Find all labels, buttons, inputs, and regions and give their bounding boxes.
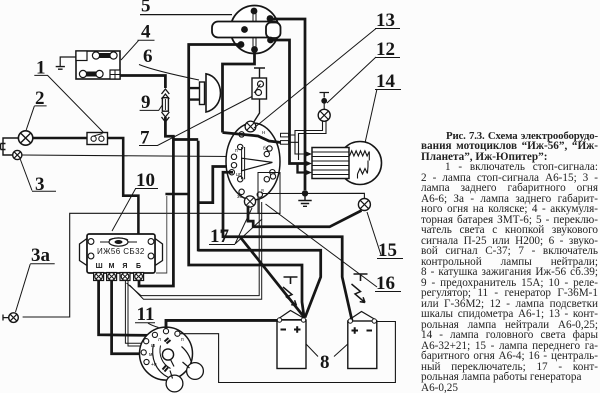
leader/underline for label 2 — [26, 106, 46, 130]
svg-text:14: 14 — [376, 71, 396, 92]
coil T8a top peak — [280, 311, 304, 319]
leader/underline for label 10 — [112, 189, 158, 232]
wire: spade terminals to HL12 net — [289, 135, 299, 142]
svg-text:Я: Я — [122, 263, 127, 270]
switch S5 axis (double line) — [253, 10, 256, 50]
switch 16 housing box (thin) — [258, 173, 280, 214]
battery GB terminal block — [110, 70, 120, 79]
wire: S5 right dot to vertical bus x=305.7 — [270, 19, 305, 190]
leader/underline for label 9 — [140, 105, 163, 110]
switch SA1 (item 1, stop-signal switch) body — [87, 133, 108, 145]
lamp HL3a (sidecar tail lamp) — [9, 313, 19, 323]
svg-text:п: п — [235, 148, 238, 154]
generator rotor inner circle — [162, 349, 173, 360]
svg-text:17: 17 — [210, 226, 230, 247]
svg-text:10: 10 — [136, 170, 155, 191]
relay enclosure thin right side — [156, 196, 167, 273]
switch S5 contact dot right — [267, 37, 274, 44]
switch SA7 contact circles — [258, 81, 264, 87]
leader/underline for label 1 — [34, 75, 105, 134]
generator lower-right brush circle — [187, 363, 204, 380]
svg-text:11: 11 — [137, 304, 155, 325]
coil T8a polarity — [281, 329, 287, 331]
switch S5 contact dot top-right — [267, 15, 274, 22]
fuse FU bottom arrows — [162, 112, 170, 122]
front position lamp HL15 — [358, 199, 370, 211]
wire: branch from belt to left coil + — [240, 237, 305, 318]
relay terminal bolts — [94, 273, 144, 281]
wire: lamp HL2 to brake switch SA1 (thick) — [33, 137, 87, 140]
battery GB top cell bar — [96, 53, 113, 58]
extra terminal on right of SA16 — [270, 174, 275, 179]
wire: S5 bottom dot down-left to central switch — [223, 50, 255, 133]
wire: SA7 down to neutral lamp in central switch — [253, 99, 260, 124]
headlight low filament — [358, 152, 370, 175]
spark gap T8a: lightning arrow — [283, 287, 297, 306]
wire: vertical bus x=198.2 from tie down — [197, 141, 200, 252]
svg-text:3: 3 — [35, 174, 45, 195]
svg-text:16: 16 — [376, 273, 395, 294]
battery ground lead — [60, 57, 76, 66]
leader for label 3 — [20, 159, 56, 192]
coil T8b polarity — [352, 327, 359, 334]
wire: SA1 right, down left bus — [108, 138, 139, 234]
SA16 terminal circles right column — [264, 151, 269, 156]
horn HA (item 6) bracket bar — [200, 82, 205, 105]
wire: relay Sh terminal down and right to generator (thick) — [99, 281, 153, 336]
svg-text:9: 9 — [141, 92, 151, 113]
switch S5 contact dot mid-left — [241, 26, 248, 33]
svg-text:м: м — [149, 352, 153, 358]
coil T8b (right) body — [348, 321, 377, 369]
switch S5 lever bar — [212, 22, 280, 38]
switch S5 contact dot top — [251, 8, 258, 15]
central switch SA16 body ellipse — [226, 123, 280, 200]
wire: relay M terminal down and right to generator (thick) — [112, 281, 142, 354]
socket pins (left arrows) — [306, 152, 312, 176]
lamp HL3a holder tick — [3, 315, 9, 321]
svg-text:13: 13 — [376, 10, 395, 31]
battery GB top cell end circles — [92, 52, 99, 59]
wire: tie fuse bus to horn bus at y=194 — [165, 193, 188, 196]
relay logo oval with wings — [109, 238, 128, 246]
lamp HL2 (stop lamp, item 2) — [18, 131, 32, 145]
leader V for label 8 — [306, 344, 348, 357]
speedometer lamp HL12 holder T-bar — [320, 93, 330, 98]
thick diagonal feed across top of SA16 to spade terminals — [223, 133, 282, 143]
switch SA1 contacts — [91, 136, 96, 141]
ground (battery) — [56, 67, 65, 70]
svg-text:8: 8 — [320, 352, 330, 373]
switch S5 knob (right rounded rect) — [266, 23, 281, 39]
generator control lamp HL17 (bottom lamp in switch) — [244, 196, 255, 207]
ground (headlight circuit) — [298, 193, 311, 206]
svg-text:М: М — [109, 263, 115, 270]
spade terminal upper — [281, 133, 289, 137]
battery GB bottom cell bar — [83, 72, 99, 77]
svg-text:+я: +я — [151, 362, 157, 368]
svg-text:ИЖ56 СБ32: ИЖ56 СБ32 — [97, 247, 145, 256]
switch SA7 (item 7, neutral lamp switch) terminal T-bar — [254, 68, 265, 78]
spark gap T8b: T electrode — [354, 274, 368, 281]
wire: S5 bottom-left dot going left then down to horn bus — [189, 45, 305, 319]
switch S5 contact dot bottom — [251, 46, 258, 53]
wire: tail lamp thin wire to central switch — [22, 155, 232, 157]
wire: vertical from SA16 bottom to front-lamp bus — [248, 206, 362, 227]
SA16 rotor contact wedge — [242, 158, 273, 171]
SA16 inner vertical link — [242, 147, 245, 179]
generator G11 body — [140, 327, 193, 380]
svg-text:цс: цс — [236, 172, 242, 178]
svg-text:бс: бс — [263, 146, 269, 152]
HL12 holder dot — [321, 98, 327, 104]
svg-text:л: л — [158, 337, 161, 343]
battery GB inner corner box — [76, 51, 87, 61]
fuse FU body — [162, 98, 168, 112]
wire: SA16 lower terminal to nested corner 1 (to right coil) — [223, 172, 352, 320]
wire: thin from junction to front lamp HL15 — [262, 193, 364, 198]
svg-text:15: 15 — [378, 240, 397, 261]
leader/underline for label 7 — [139, 97, 252, 146]
battery GB bottom cell end circles — [79, 70, 86, 77]
SA16 terminal circles left column — [238, 144, 243, 149]
lamp holder bracket left — [1, 138, 19, 155]
switch S5 (item 5, headlamp switch with horn button) body — [231, 6, 279, 54]
generator brush arcs — [153, 344, 193, 378]
leader/underline for label 4 — [121, 40, 155, 60]
horn wire stubs — [189, 88, 200, 100]
leader/underline for label 15 — [367, 212, 403, 259]
leader/underline for label 17 — [209, 208, 262, 245]
wire: thin net y=213 to sidecar lamp 3a — [23, 213, 280, 317]
leader/underline for label 6 — [139, 65, 199, 81]
switch S5 contact dot bottom-left — [238, 41, 245, 48]
headlight socket (hatched) — [312, 148, 349, 179]
fuse FU (item 9) top arrows — [162, 89, 170, 99]
coil T8b top peak — [350, 312, 374, 320]
wire: generator right terminal thin to coil case loop — [180, 322, 395, 383]
coil T8b terminals — [348, 319, 352, 323]
svg-text:3а: 3а — [31, 245, 51, 266]
svg-text:12: 12 — [376, 39, 395, 60]
horn HA body (D shape) — [206, 74, 221, 112]
headlight bulb HL14 globe — [339, 142, 382, 185]
spark gap T8b: lightning arrow — [352, 284, 366, 303]
wire: relay Ya terminal thin pair down to generator — [125, 281, 144, 344]
coil T8a (left) body — [277, 320, 306, 369]
relay K10 (item 10) box — [87, 234, 155, 273]
svg-text:6: 6 — [143, 46, 153, 67]
leader/underline for label 5 (wire to switch S5) — [140, 14, 232, 16]
battery GB (item 4) case — [76, 51, 120, 79]
spade terminal lower — [281, 141, 289, 145]
speedometer lamp HL12 — [318, 109, 330, 121]
spark gap T8a: T electrode — [284, 277, 298, 284]
svg-text:4: 4 — [141, 22, 151, 43]
svg-text:н: н — [262, 130, 265, 136]
switch SA7 body — [252, 78, 267, 99]
relay K10 right ear — [155, 239, 163, 266]
leader/underline for label 13 (long diagonal to HL13) — [254, 29, 400, 129]
leader/underline for label 16 — [266, 204, 402, 292]
wire: generator top terminal up to coil bus (thick) — [166, 320, 306, 328]
leader for label 3a — [16, 264, 55, 312]
coil T8a terminals — [277, 318, 281, 322]
wire: SA16 bottom-left thick zigzag to left area then to coil feed — [198, 167, 321, 318]
wire: fuse down then jog right and down to relay B terminal — [139, 117, 173, 286]
leader/underline for label 12 — [327, 57, 400, 103]
svg-text:Б: Б — [136, 263, 141, 270]
wire: relay Ya thin pair to control-lamp net (right then up into switch 16) — [127, 199, 260, 296]
wire: HL12 stepped pair down-left to headlight socket pins — [295, 121, 323, 155]
junction dot on ground bus — [302, 190, 308, 196]
headlight main filament (zigzag) — [350, 151, 370, 156]
relay K10 left ear — [80, 239, 88, 266]
svg-text:п: п — [181, 337, 184, 343]
svg-text:Ш: Ш — [96, 263, 103, 270]
leader/underline for label 11 — [135, 323, 159, 328]
wire: link to socket pin 3 — [298, 164, 307, 173]
generator terminal circles — [152, 332, 157, 337]
lamp HL3 (tail lamp, item 3) — [13, 150, 22, 159]
neutral control lamp HL13 (top lamp in switch) — [245, 121, 256, 132]
svg-text:ш: ш — [151, 343, 155, 349]
leader/underline for label 14 — [365, 89, 401, 143]
generator lower-left brush circle — [166, 375, 183, 392]
wire: horizontal tie at y=139.5 — [173, 138, 198, 141]
wire: S5 lower-right dot to vertical bus x=291.5 — [271, 40, 307, 164]
wire: battery + to fuse (thick) — [120, 76, 165, 89]
